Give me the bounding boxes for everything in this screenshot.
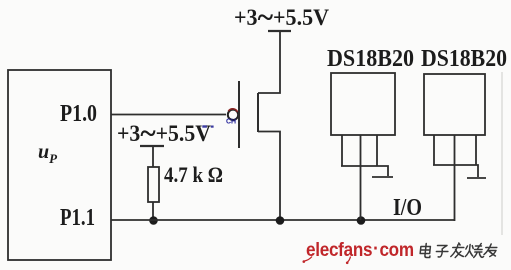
value label +3~+5.5V (resistor supply): [117, 115, 211, 150]
svg-text:CH: CH: [226, 119, 236, 126]
ground (sensor U3): [467, 177, 486, 179]
wire P1.0 to transistor gate: [111, 114, 226, 116]
wire I/O bus: [111, 219, 455, 221]
transistor Q1 drain lead: [258, 31, 280, 93]
char 发: [451, 243, 465, 258]
svg-text:+3~+5.5V: +3~+5.5V: [117, 115, 211, 150]
net label I/O: [393, 195, 422, 221]
char 友: [484, 244, 497, 257]
sensor U3 DQ pin wire: [454, 135, 456, 221]
wire supply bar to resistor R1: [152, 146, 154, 167]
junction dot (sensor1 pin/bus): [357, 216, 366, 225]
label uP: [38, 141, 58, 166]
char 电: [420, 244, 431, 258]
svg-text:DS18B20: DS18B20: [327, 46, 414, 72]
svg-text:P1.0: P1.0: [60, 101, 97, 127]
ground (sensor U2): [372, 176, 393, 178]
watermark chinese characters 电子发烧友: [420, 243, 498, 258]
sensor U2 DS18B20 body: [331, 73, 395, 135]
junction dot (resistor/bus): [149, 216, 158, 225]
svg-text:DS18B20: DS18B20: [421, 46, 507, 72]
wire resistor R1 to bus: [152, 202, 154, 220]
svg-text:4.7 k Ω: 4.7 k Ω: [164, 162, 223, 187]
svg-text:P1.1: P1.1: [60, 205, 95, 231]
char 子: [436, 246, 449, 258]
transistor Q1 gate bar: [238, 81, 240, 148]
sensor U3 DS18B20 body: [424, 74, 485, 135]
transistor Q1 gate bubble: [228, 109, 238, 120]
resistor R1 body: [148, 167, 159, 202]
transistor Q1 channel bar: [257, 93, 259, 132]
sensor U3 label DS18B20: [421, 46, 507, 72]
sensor U2 DQ pin wire: [360, 135, 362, 220]
sensor U3 package neck: [433, 135, 478, 177]
transistor Q1 source lead: [258, 132, 280, 221]
power rail +3~+5.5V (top) bar: [268, 30, 291, 32]
power rail +3~+5.5V (resistor) bar: [140, 145, 164, 147]
svg-text:+3~+5.5V: +3~+5.5V: [234, 0, 329, 34]
char 烧: [465, 244, 485, 258]
svg-text:elecfans·com: elecfans·com: [306, 238, 414, 261]
junction dot (transistor source/bus): [276, 216, 285, 225]
value label 4.7 k ohm: [164, 162, 223, 187]
watermark elecfans.com logo: [303, 238, 414, 264]
watermark blue specks: [202, 125, 213, 127]
sensor U2 label DS18B20: [327, 46, 414, 72]
pin label P1.1: [60, 205, 95, 231]
microcontroller uP box: [8, 70, 111, 260]
value label +3~+5.5V (top): [234, 0, 329, 34]
scan artifact faint line: [501, 72, 503, 235]
sensor U2 package neck: [341, 135, 388, 176]
svg-text:I/O: I/O: [393, 195, 422, 221]
pin label P1.0: [60, 101, 97, 127]
watermark CH mark: [226, 119, 236, 126]
